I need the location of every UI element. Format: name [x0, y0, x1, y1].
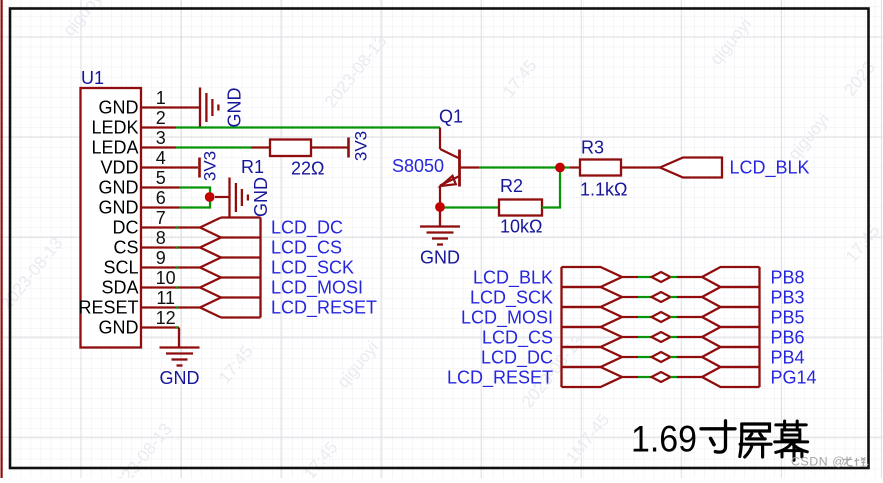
svg-text:2: 2	[156, 108, 166, 128]
svg-text:GND: GND	[99, 198, 139, 218]
connector U1	[81, 88, 142, 348]
power 3V3 (right of R1)	[347, 138, 350, 158]
wire base to junction	[479, 166, 556, 168]
svg-text:4: 4	[156, 148, 166, 168]
harness bundle	[562, 267, 760, 387]
junction emitter	[435, 202, 445, 212]
junction	[205, 192, 215, 202]
svg-text:12: 12	[156, 308, 176, 328]
svg-text:22Ω: 22Ω	[291, 159, 324, 179]
svg-text:LCD_DC: LCD_DC	[271, 218, 343, 239]
svg-text:GND: GND	[99, 98, 139, 118]
ground pin12	[160, 328, 200, 366]
ground pins 5-6	[230, 178, 248, 218]
svg-text:LCD_CS: LCD_CS	[482, 328, 553, 349]
harness row LCD_CS to PB6	[562, 327, 760, 347]
svg-text:LCD_DC: LCD_DC	[481, 348, 553, 369]
svg-text:10kΩ: 10kΩ	[500, 217, 542, 237]
svg-text:9: 9	[156, 248, 166, 268]
svg-text:R3: R3	[581, 138, 604, 158]
svg-text:10: 10	[156, 268, 176, 288]
harness connector pins 7-11	[200, 218, 261, 318]
svg-text:Q1: Q1	[439, 107, 463, 127]
harness row LCD_RESET to PG14	[562, 367, 760, 387]
svg-text:PG14: PG14	[771, 368, 817, 388]
svg-text:PB6: PB6	[771, 328, 805, 348]
power 3V3 (pin 4 VDD)	[198, 158, 201, 178]
harness row LCD_SCK to PB3	[562, 287, 760, 307]
svg-text:SDA: SDA	[101, 278, 138, 298]
svg-text:GND: GND	[99, 178, 139, 198]
pin names	[78, 98, 138, 338]
svg-text:LEDK: LEDK	[91, 118, 138, 138]
harness row LCD_MOSI to PB5	[562, 307, 760, 327]
svg-text:3V3: 3V3	[201, 151, 220, 181]
svg-text:5: 5	[156, 168, 166, 188]
glyph cun	[701, 421, 735, 452]
svg-text:VDD: VDD	[100, 158, 138, 178]
wire LEDK	[176, 126, 440, 128]
pin numbers	[156, 88, 176, 328]
svg-text:GND: GND	[251, 177, 271, 217]
svg-text:7: 7	[156, 208, 166, 228]
harness right labels	[771, 268, 817, 388]
net labels LCD_*	[271, 218, 377, 319]
glyph ping	[740, 424, 771, 457]
svg-text:LCD_RESET: LCD_RESET	[447, 368, 553, 389]
pin stubs	[141, 108, 200, 328]
resistor R2	[445, 206, 500, 208]
svg-text:PB3: PB3	[771, 288, 805, 308]
svg-text:GND: GND	[225, 88, 245, 128]
resistor R3	[565, 166, 571, 168]
harness row LCD_BLK to PB8	[562, 267, 760, 287]
svg-text:1.69: 1.69	[631, 418, 697, 459]
sheet edge red line	[1, 0, 3, 478]
port LCD_BLK	[660, 158, 722, 178]
svg-text:3: 3	[156, 128, 166, 148]
svg-text:PB8: PB8	[771, 268, 805, 288]
svg-text:LCD_SCK: LCD_SCK	[470, 288, 553, 309]
transistor Q1	[440, 128, 479, 203]
svg-text:RESET: RESET	[78, 298, 138, 318]
svg-text:CS: CS	[113, 238, 138, 258]
svg-text:CSDN @: CSDN @	[791, 454, 845, 468]
ground pin1	[200, 88, 218, 128]
harness row LCD_DC to PB4	[562, 347, 760, 367]
svg-text:6: 6	[156, 188, 166, 208]
svg-text:DC: DC	[113, 218, 139, 238]
svg-text:LEDA: LEDA	[91, 138, 138, 158]
svg-text:1.1kΩ: 1.1kΩ	[580, 180, 627, 200]
wire end dots	[176, 226, 178, 328]
ground Q1	[420, 212, 460, 245]
svg-text:1: 1	[156, 88, 166, 108]
svg-text:GND: GND	[99, 318, 139, 338]
svg-text:LCD_SCK: LCD_SCK	[271, 258, 354, 279]
svg-text:11: 11	[156, 288, 175, 308]
svg-text:PB4: PB4	[771, 348, 805, 368]
svg-text:LCD_CS: LCD_CS	[271, 238, 342, 259]
svg-text:GND: GND	[160, 368, 200, 388]
svg-text:LCD_BLK: LCD_BLK	[730, 158, 810, 179]
svg-text:LCD_MOSI: LCD_MOSI	[461, 308, 553, 329]
junction R3	[555, 163, 565, 173]
svg-text:LCD_RESET: LCD_RESET	[271, 298, 377, 319]
harness left labels	[447, 268, 553, 389]
svg-text:GND: GND	[420, 248, 460, 268]
svg-text:3V3: 3V3	[352, 131, 371, 161]
svg-text:S8050: S8050	[392, 156, 444, 176]
wire to ground	[215, 196, 230, 198]
svg-text:R1: R1	[241, 157, 264, 177]
resistor R1	[251, 146, 270, 148]
svg-text:LCD_MOSI: LCD_MOSI	[271, 278, 363, 299]
svg-text:U1: U1	[81, 68, 104, 88]
svg-text:8: 8	[156, 228, 166, 248]
glyph mu	[775, 421, 808, 460]
svg-text:SCL: SCL	[103, 258, 138, 278]
svg-text:R2: R2	[500, 176, 523, 196]
svg-text:LCD_BLK: LCD_BLK	[473, 268, 553, 289]
wire LEDA	[176, 146, 251, 148]
wire GND pins 5-6	[180, 188, 211, 208]
svg-text:PB5: PB5	[771, 308, 805, 328]
